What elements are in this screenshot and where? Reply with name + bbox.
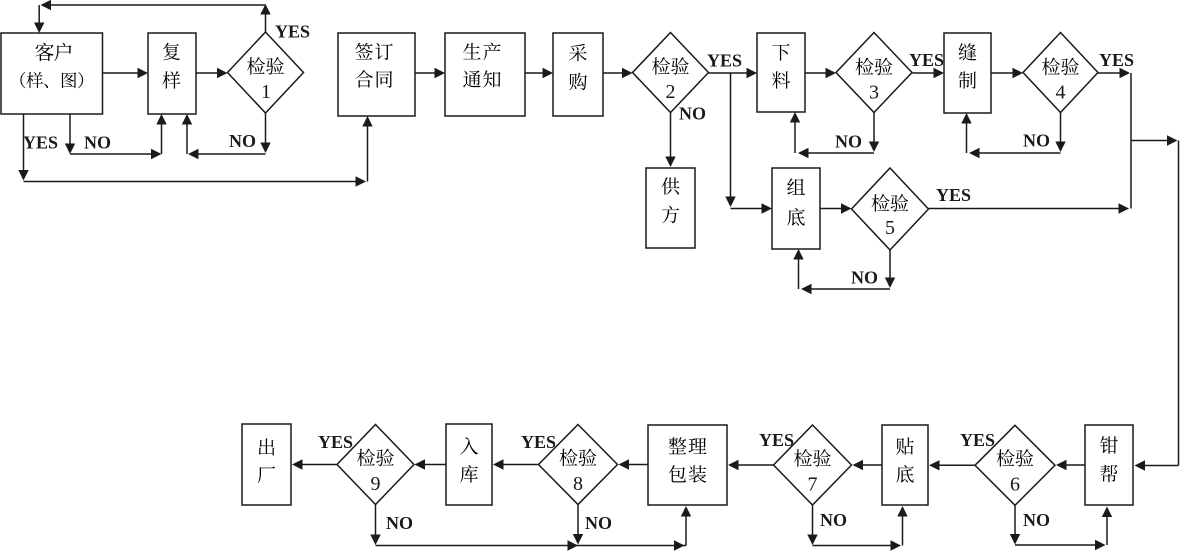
wire 检验2 YES branch down (725, 73, 735, 207)
svg-text:NO: NO (1023, 510, 1050, 530)
wire 检验4 NO down (1055, 112, 1065, 152)
wire up into 签订合同 bottom (362, 116, 372, 182)
svg-text:NO: NO (835, 132, 862, 152)
svg-text:3: 3 (869, 82, 879, 104)
decision diamond 检验4 (1023, 33, 1098, 113)
wire 客户 NO down (65, 114, 75, 154)
wire 检验1 top up (260, 4, 270, 32)
wire 检验4→right rail YES (1098, 68, 1130, 78)
wire rail A to rail B (1131, 135, 1178, 145)
wire 检验2 NO down to 供方 (665, 113, 675, 168)
svg-text:NO: NO (585, 513, 612, 533)
svg-text:7: 7 (808, 474, 818, 496)
svg-text:1: 1 (261, 81, 271, 103)
label NO 客户→复样 (84, 133, 111, 153)
svg-text:NO: NO (1023, 131, 1050, 151)
wire up into 下料 bottom (790, 112, 800, 153)
label NO 检验2 (679, 104, 706, 124)
decision diamond 检验1 (228, 32, 304, 113)
wire top horizontal (41, 0, 266, 10)
label NO 检验6 (1023, 510, 1050, 530)
decision diamond 检验3 (836, 33, 912, 113)
wire 生产通知→采购 (525, 68, 553, 78)
process box 钳帮 (1085, 425, 1133, 505)
wire 客户→复样 (102, 68, 148, 78)
wire 下料→检验3 (805, 68, 836, 78)
process box 缝制 (944, 33, 991, 113)
svg-text:YES: YES (23, 133, 58, 153)
wire 检验1 NO down (260, 113, 270, 153)
svg-text:NO: NO (679, 104, 706, 124)
wire 钳帮→检验6 (1056, 460, 1085, 470)
label YES 检验3 (909, 50, 944, 70)
wire up into 复样 bottom left (156, 114, 166, 154)
svg-text:NO: NO (820, 510, 847, 530)
wire 检验1 NO horizontal (188, 149, 266, 159)
wire 客户 YES down (18, 114, 28, 181)
process box 组底 (772, 168, 820, 249)
wire 检验9 NO down (370, 505, 380, 546)
svg-text:NO: NO (851, 268, 878, 288)
wire 贴底→检验7 (853, 460, 883, 470)
decision diamond 检验6 (975, 425, 1055, 505)
decision diamond 检验7 (774, 425, 852, 505)
svg-text:YES: YES (960, 430, 995, 450)
process box 整理包装 (648, 425, 727, 505)
wire 检验5 YES to rail A (929, 203, 1130, 213)
wire 检验8→入库 YES (493, 459, 539, 469)
svg-text:YES: YES (1099, 50, 1134, 70)
label NO 检验9 (386, 513, 413, 533)
decision diamond 检验9 (337, 425, 414, 505)
wire rail B into 钳帮 (1135, 460, 1179, 470)
wire 检验8 NO down (573, 505, 583, 545)
wire 检验9→出厂 YES (292, 459, 337, 469)
svg-text:8: 8 (573, 473, 583, 495)
label YES 检验9 (318, 432, 353, 452)
decision diamond 检验8 (539, 425, 618, 505)
svg-text:YES: YES (318, 432, 353, 452)
svg-text:4: 4 (1056, 82, 1066, 104)
wire up into 钳帮 bottom (1102, 507, 1112, 546)
wire right rail A vertical (1130, 73, 1132, 209)
label YES 检验6 (960, 430, 995, 450)
svg-text:YES: YES (759, 430, 794, 450)
svg-text:YES: YES (521, 432, 556, 452)
wire branch into 组底 (731, 203, 773, 213)
wire 检验6→贴底 YES (929, 460, 975, 470)
process box 贴底 (882, 425, 928, 505)
label YES 检验5 (936, 185, 971, 205)
wire up into 缝制 bottom (961, 113, 971, 153)
process box 下料 (757, 33, 805, 112)
wire up into 贴底 bottom (897, 506, 907, 546)
wire 复样→检验1 (196, 68, 228, 78)
svg-text:9: 9 (371, 473, 381, 495)
process box 客户（样、图） (1, 33, 103, 114)
svg-text:2: 2 (666, 81, 676, 103)
process box 采购 (553, 33, 603, 116)
process box 复样 (148, 33, 196, 114)
process box 入库 (446, 424, 492, 505)
wire 检验6 NO horizontal (1015, 540, 1106, 550)
wire 组底→检验5 (820, 203, 852, 213)
wire 检验7 NO down (807, 505, 817, 545)
process box 出厂 (242, 424, 291, 505)
svg-text:YES: YES (707, 51, 742, 71)
wire 采购→检验2 (603, 68, 633, 78)
wire down into 客户 top (34, 5, 44, 33)
wire 检验7 NO horizontal (813, 540, 902, 550)
wire up into 复样 bottom right (182, 114, 192, 154)
wire 检验6 NO down (1010, 505, 1020, 545)
decision diamond 检验5 (852, 168, 929, 250)
wire 检验7→整理包装 (728, 460, 774, 470)
process box 生产通知 (445, 33, 525, 116)
wire right rail B vertical (1178, 141, 1180, 466)
label YES 客户 out (23, 133, 58, 153)
wire 检验3 NO horizontal (798, 148, 874, 158)
wire NO horizontal to 复样 (70, 149, 162, 159)
wire 缝制→检验4 (991, 68, 1023, 78)
label YES 检验7 (759, 430, 794, 450)
wire 检验4 NO horizontal (969, 148, 1061, 158)
label NO 检验3 (835, 132, 862, 152)
wire 检验5 NO horizontal (801, 284, 890, 294)
process box 签订合同 (338, 33, 415, 116)
svg-text:NO: NO (386, 513, 413, 533)
wire 检验3 NO down (869, 113, 879, 153)
svg-text:NO: NO (229, 131, 256, 151)
label YES 检验4 (1099, 50, 1134, 70)
wire up into 整理包装 bottom (681, 506, 691, 546)
wire 检验2→下料 YES (709, 68, 758, 78)
wire YES horizontal to 签订合同 (24, 176, 367, 186)
label YES 检验2 (707, 51, 742, 71)
label YES 检验1 (275, 22, 310, 42)
wire 整理包装→检验8 (619, 459, 649, 469)
decision diamond 检验2 (633, 33, 709, 113)
svg-text:5: 5 (885, 217, 895, 239)
wire 签订合同→生产通知 (415, 68, 445, 78)
wire 检验3→缝制 YES (913, 68, 945, 78)
svg-text:6: 6 (1010, 474, 1020, 496)
wire up into 组底 bottom (793, 249, 803, 289)
process box 供方 (646, 168, 695, 248)
label YES 检验8 (521, 432, 556, 452)
label NO 检验5 (851, 268, 878, 288)
svg-text:YES: YES (936, 185, 971, 205)
label NO 检验7 (820, 510, 847, 530)
svg-text:NO: NO (84, 133, 111, 153)
svg-text:YES: YES (275, 22, 310, 42)
label NO 检验8 (585, 513, 612, 533)
wire 入库→检验9 (415, 459, 447, 469)
wire bottom long horizontal (376, 540, 687, 550)
label NO 检验1 (229, 131, 256, 151)
wire 检验5 NO down (885, 250, 895, 288)
label NO 检验4 (1023, 131, 1050, 151)
svg-text:YES: YES (909, 50, 944, 70)
wire corner arrow right at 整理包装 riser (674, 540, 685, 550)
